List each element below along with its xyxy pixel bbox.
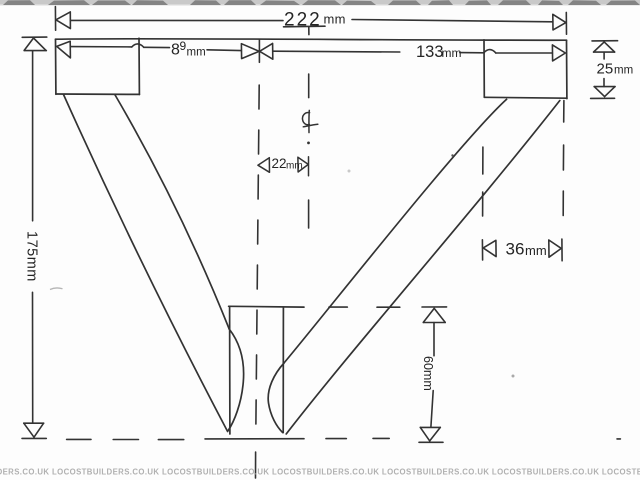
svg-text:mm: mm [442,46,462,60]
svg-text:25: 25 [597,61,614,78]
svg-text:36: 36 [506,240,525,259]
svg-text:mm: mm [187,47,206,59]
svg-text:9: 9 [180,39,187,53]
svg-text:mm: mm [324,11,346,26]
svg-text:133: 133 [416,43,444,61]
svg-text:222: 222 [284,9,322,30]
svg-text:mm: mm [286,161,303,172]
svg-text:175mm: 175mm [24,231,40,282]
svg-text:LOCOSTBUILDERS.CO.UK LOCOSTBU: LOCOSTBUILDERS.CO.UK LOCOSTBUILDERS.CO.U… [0,467,640,476]
svg-text:22: 22 [272,156,287,171]
svg-text:60mm: 60mm [421,356,435,391]
svg-text:mm: mm [614,65,633,77]
svg-text:mm: mm [525,243,547,258]
